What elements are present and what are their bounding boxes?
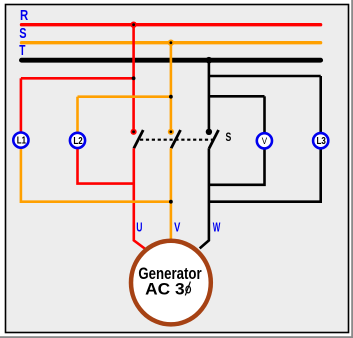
wire red drop from bus R to switch — [132, 25, 135, 132]
junction dot on bus R — [130, 22, 136, 28]
switch coupling dashed line — [140, 139, 214, 141]
wire red below switch to generator U — [134, 148, 146, 249]
wire orange below switch to generator V — [170, 148, 173, 239]
svg-text:S: S — [226, 130, 232, 144]
wire black drop from bus T to switch — [208, 60, 211, 132]
svg-text:L2: L2 — [73, 135, 82, 146]
wire orange horizontal to L2 branch — [78, 95, 171, 98]
svg-text:U: U — [136, 221, 142, 235]
junction dot orange branch — [169, 95, 173, 99]
switch S pole 1 terminal dot — [131, 129, 137, 135]
wire black drop to L3 — [319, 76, 322, 133]
wire black drop to voltmeter — [263, 96, 266, 133]
svg-text:T: T — [19, 43, 25, 59]
wire black below switch to generator W — [200, 148, 209, 248]
switch S pole 1 blade — [134, 130, 143, 148]
lamp L3 — [313, 133, 328, 148]
wire black horizontal to L3 branch — [209, 75, 321, 78]
window edge strip bottom — [0, 336, 353, 338]
switch S pole 3 terminal dot — [206, 129, 212, 135]
bus T (black phase line) — [22, 58, 321, 63]
switch S pole 2 blade — [171, 130, 180, 148]
voltmeter V — [257, 133, 272, 148]
svg-text:L3: L3 — [317, 135, 326, 146]
svg-text:V: V — [262, 136, 267, 147]
wire black return from voltmeter — [209, 149, 265, 185]
switch S pole 3 blade — [209, 130, 218, 148]
window edge strip right — [351, 0, 353, 338]
junction dot orange return — [169, 200, 173, 204]
switch S pole 2 terminal dot — [168, 129, 174, 135]
junction dot on bus S — [168, 40, 174, 46]
wire orange drop from bus S to switch — [170, 43, 173, 132]
junction dot red branch — [132, 76, 136, 80]
svg-text:V: V — [174, 220, 181, 234]
svg-text:W: W — [213, 220, 221, 234]
wire orange return from L1 — [21, 149, 171, 202]
wire black horizontal to voltmeter branch — [209, 95, 265, 98]
wire orange drop to L2 — [76, 97, 79, 134]
junction dot on bus T — [206, 57, 213, 64]
svg-text:AC 3: AC 3 — [145, 279, 184, 298]
phi symbol — [185, 282, 190, 296]
lamp L2 — [70, 133, 85, 148]
svg-text:R: R — [20, 8, 29, 24]
wire red horizontal to L1 branch — [21, 77, 134, 80]
svg-text:L1: L1 — [17, 135, 26, 146]
lamp L1 — [13, 133, 28, 148]
wire red return from L2 — [78, 149, 134, 184]
wire red drop to L1 — [20, 78, 23, 133]
bus S (orange phase line) — [22, 41, 321, 44]
wire black return from L3 — [209, 149, 321, 202]
bus R (red phase line) — [22, 23, 321, 26]
generator body — [131, 241, 211, 325]
svg-text:S: S — [19, 26, 27, 42]
